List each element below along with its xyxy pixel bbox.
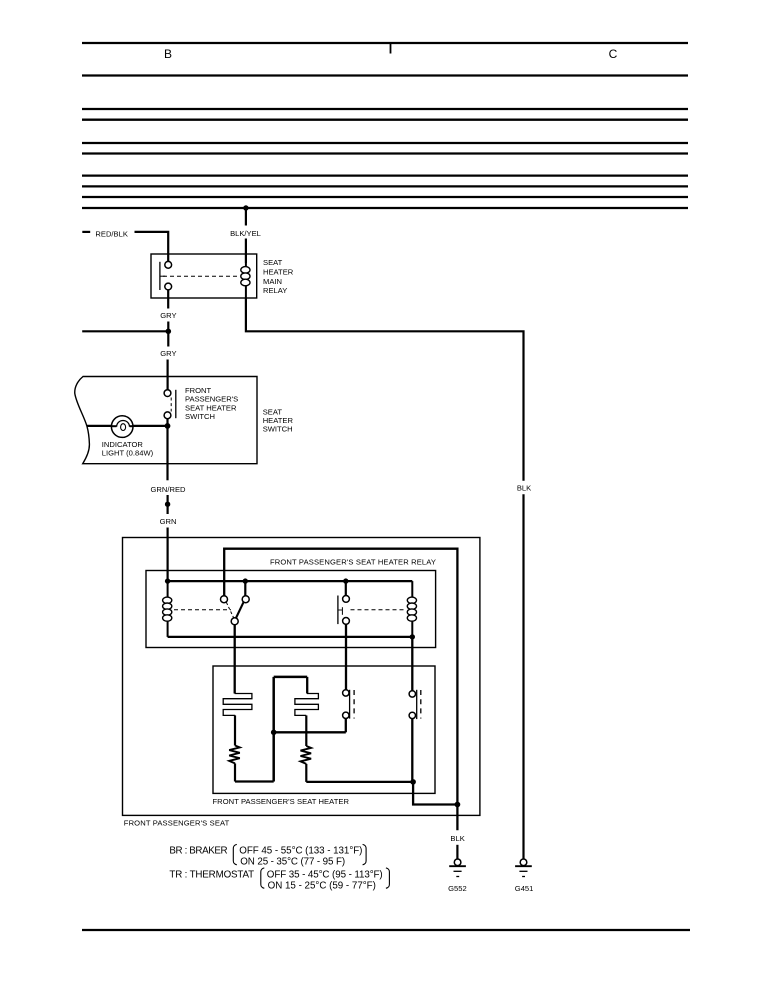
- svg-text:SEAT HEATER: SEAT HEATER: [185, 403, 237, 412]
- svg-text:OFF 35 - 45°C (95 - 113°F): OFF 35 - 45°C (95 - 113°F): [267, 869, 383, 880]
- wire bus line 3: [82, 108, 688, 110]
- junction dot center riser: [271, 730, 277, 736]
- wire GRY below junction: [167, 331, 169, 346]
- thermostat1 bar: [349, 690, 351, 719]
- indicator light filament loop: [121, 424, 126, 431]
- svg-text:BLK/YEL: BLK/YEL: [230, 229, 261, 238]
- wire GRN upper: [167, 504, 169, 514]
- wire center bridge: [274, 676, 308, 679]
- connector dot GRN/RED-GRN: [165, 502, 170, 507]
- wire RED/BLK to relay: [135, 232, 169, 262]
- thermostat1 dashed bar: [353, 690, 355, 719]
- wire switch to junction: [166, 419, 168, 428]
- wire bus line 4: [82, 119, 688, 121]
- legend bracket left 1: [233, 844, 237, 864]
- relay switch bar tick: [160, 275, 165, 277]
- svg-text:GRN/RED: GRN/RED: [150, 485, 186, 494]
- box FRONT PASSENGER'S SEAT outer: [123, 538, 480, 816]
- wire thermostat2 down to heater bottom: [411, 719, 413, 782]
- relay box seat heater main relay: [151, 254, 257, 298]
- wire element right to resistor: [305, 715, 307, 746]
- legend BR BRAKER values: [169, 845, 382, 891]
- BOTTOM SECTION: [169, 834, 533, 893]
- svg-text:ON 25 - 35°C (77 - 95 F): ON 25 - 35°C (77 - 95 F): [240, 857, 345, 868]
- wire torn edge to lamp: [87, 425, 114, 427]
- relay1 coil left: [163, 581, 172, 637]
- SWITCH SECTION: [75, 377, 294, 582]
- wire bus line 8: [82, 185, 688, 187]
- wire bus line 5: [82, 142, 688, 144]
- relay1 contact tick: [341, 607, 343, 615]
- svg-text:MAIN: MAIN: [263, 277, 282, 286]
- thermostat1 circle top: [343, 690, 349, 696]
- wire bottom bus to thermostat2: [411, 637, 413, 691]
- svg-text:HEATER: HEATER: [263, 268, 294, 277]
- svg-text:GRY: GRY: [160, 311, 176, 320]
- wire GRY into switch box: [167, 360, 169, 390]
- junction dot bus left: [165, 578, 170, 583]
- resistor left: [229, 746, 240, 764]
- wire lamp to junction: [133, 425, 168, 427]
- svg-text:SWITCH: SWITCH: [185, 412, 215, 421]
- junction dot switch output: [165, 423, 171, 429]
- relay1 switch circle left: [221, 596, 228, 603]
- relay contact pin circle bottom: [165, 283, 172, 290]
- wire bus line 6: [82, 152, 688, 154]
- box seat heater relay: [146, 571, 436, 648]
- box front passenger's seat heater: [213, 666, 435, 793]
- thermostat2 TR contact: [409, 690, 421, 719]
- ground G451: [515, 859, 532, 877]
- switch bar: [175, 390, 177, 418]
- wire mid link: [274, 731, 346, 733]
- junction dot bottom bus right: [410, 634, 415, 639]
- thermostat1 circle bottom: [343, 712, 349, 718]
- HEATER SECTION: [213, 666, 461, 807]
- component label SEAT HEATER MAIN RELAY: [263, 258, 294, 295]
- wire bridge down to element right: [306, 677, 308, 694]
- wire switch output down: [166, 426, 168, 480]
- relay1 contact bar: [337, 596, 339, 625]
- wire relay feed top horizontal: [224, 549, 457, 831]
- indicator light filament hump: [117, 420, 130, 427]
- wire center riser: [272, 677, 275, 782]
- svg-text:PASSENGER'S: PASSENGER'S: [185, 395, 238, 404]
- relay coil L1: [241, 263, 250, 298]
- wire relay1 switch output down: [234, 625, 236, 694]
- switch contact circle top: [164, 390, 171, 397]
- heater element right TR meander: [295, 694, 319, 716]
- junction dot bus mid: [243, 578, 248, 583]
- wire bus line 9: [82, 196, 688, 198]
- svg-text:BLK: BLK: [450, 834, 464, 843]
- relay1 switch circle right: [242, 596, 249, 603]
- wire GRY to junction: [167, 322, 169, 332]
- svg-text:SWITCH: SWITCH: [263, 424, 293, 433]
- ground G552: [449, 859, 466, 877]
- wire bottom rule: [82, 929, 690, 931]
- relay1 switch arm solid: [236, 602, 243, 618]
- wire resistor left down: [234, 763, 236, 781]
- wire bus line 1: [82, 42, 688, 44]
- wire BLK/YEL lower: [245, 239, 247, 264]
- resistor right: [301, 746, 312, 764]
- RELAY1 SECTION: [123, 538, 480, 831]
- wire bus line 2: [82, 74, 688, 76]
- wire GRY from relay contact: [167, 290, 169, 309]
- wire BLK right long: [522, 494, 524, 859]
- relay1 contact circle top: [343, 596, 350, 603]
- wire relay bottom bus: [168, 636, 413, 638]
- junction dot GRY: [166, 329, 172, 335]
- wire BLK to G552: [456, 845, 458, 859]
- thermostat2 circle bottom: [409, 712, 415, 718]
- junction dot BLK/YEL on bus line 10: [243, 205, 248, 210]
- svg-text:BLK: BLK: [517, 483, 531, 492]
- component label INDICATOR LIGHT: [102, 440, 154, 458]
- switch contact circle bottom: [164, 412, 171, 419]
- indicator light bulb circle: [111, 416, 133, 438]
- switch plunger dashed: [170, 398, 172, 412]
- wire heater output to right riser: [413, 782, 457, 805]
- thermostat2 bar: [416, 690, 418, 719]
- legend bracket right 2: [386, 868, 390, 888]
- wire resistor right down: [305, 764, 307, 782]
- wire relay top bus: [168, 580, 413, 582]
- svg-text:ON 15 - 25°C (59 - 77°F): ON 15 - 25°C (59 - 77°F): [268, 881, 376, 892]
- wire BLK/YEL upper: [245, 208, 247, 226]
- component label SEAT HEATER SWITCH: [263, 407, 294, 433]
- thermostat2 circle top: [409, 691, 415, 697]
- wire thermostat1 bottom: [345, 719, 347, 733]
- svg-text:FRONT PASSENGER'S SEAT HEATER: FRONT PASSENGER'S SEAT HEATER: [213, 797, 350, 806]
- relay1 contact circle bottom: [343, 618, 350, 625]
- svg-text:FRONT PASSENGER'S SEAT HEATER: FRONT PASSENGER'S SEAT HEATER RELAY: [270, 558, 436, 567]
- relay1 contact tick link: [338, 609, 343, 611]
- wire heater bottom right: [306, 781, 413, 783]
- thermostat1 BR contact: [343, 690, 355, 719]
- legend bracket right 1: [363, 844, 367, 864]
- relay1 coil right: [407, 581, 416, 637]
- thermostat2 dashed bar: [420, 690, 422, 719]
- svg-text:B: B: [164, 47, 172, 61]
- svg-text:OFF 45 - 55°C (133 - 131°F): OFF 45 - 55°C (133 - 131°F): [239, 845, 362, 856]
- wire RED/BLK stub: [82, 231, 90, 233]
- svg-text:FRONT PASSENGER'S SEAT: FRONT PASSENGER'S SEAT: [124, 818, 230, 827]
- dashed link contact to coil: [351, 609, 405, 611]
- dashed link coil to switch: [174, 609, 231, 611]
- wire coil to right side: [246, 298, 524, 481]
- svg-text:BR : BRAKER: BR : BRAKER: [169, 845, 227, 856]
- wire left branch horizontal: [82, 330, 168, 332]
- wire relay1 contact output down: [345, 624, 347, 689]
- svg-text:SEAT: SEAT: [263, 258, 283, 267]
- junction dot heater bottom right: [410, 779, 416, 785]
- wire bus mid to switch circle: [244, 581, 246, 596]
- wire tick on bus line 1: [390, 43, 392, 54]
- svg-text:GRN: GRN: [160, 517, 177, 526]
- svg-text:RED/BLK: RED/BLK: [95, 230, 128, 239]
- svg-text:C: C: [609, 47, 618, 61]
- svg-text:G552: G552: [448, 884, 467, 893]
- relay contact pin circle top: [165, 261, 172, 268]
- connector box seat heater switch with torn left edge: [75, 377, 257, 464]
- svg-text:LIGHT (0.84W): LIGHT (0.84W): [102, 449, 154, 458]
- svg-text:TR : THERMOSTAT: TR : THERMOSTAT: [169, 869, 254, 880]
- component label FRONT PASSENGER'S SEAT HEATER SWITCH: [185, 386, 238, 421]
- wire heater bottom left: [235, 780, 274, 782]
- indicator light leads: [111, 425, 117, 427]
- junction dot bus right: [343, 578, 348, 583]
- svg-text:GRY: GRY: [160, 349, 176, 358]
- wire GRN/RED to connector: [167, 495, 169, 504]
- wire bus line 10: [82, 207, 688, 209]
- heater element left BR meander: [223, 694, 252, 716]
- MAIN RELAY SECTION: [82, 205, 531, 859]
- wire element left to resistor: [234, 715, 236, 745]
- relay switch bar: [159, 262, 161, 290]
- relay1 switch circle bottom: [231, 618, 238, 625]
- TOP BUS SECTION: [82, 43, 688, 208]
- svg-text:FRONT: FRONT: [185, 386, 212, 395]
- svg-text:G451: G451: [515, 884, 534, 893]
- junction dot right riser: [455, 802, 461, 808]
- svg-text:RELAY: RELAY: [263, 286, 287, 295]
- relay dashed link: [163, 275, 240, 277]
- wire bus line 7: [82, 174, 688, 176]
- wire GRN into seat box: [167, 528, 169, 582]
- legend bracket left 2: [261, 868, 265, 888]
- relay1 switch arm dashed: [226, 602, 233, 617]
- wire bus right to contact circle: [345, 581, 347, 595]
